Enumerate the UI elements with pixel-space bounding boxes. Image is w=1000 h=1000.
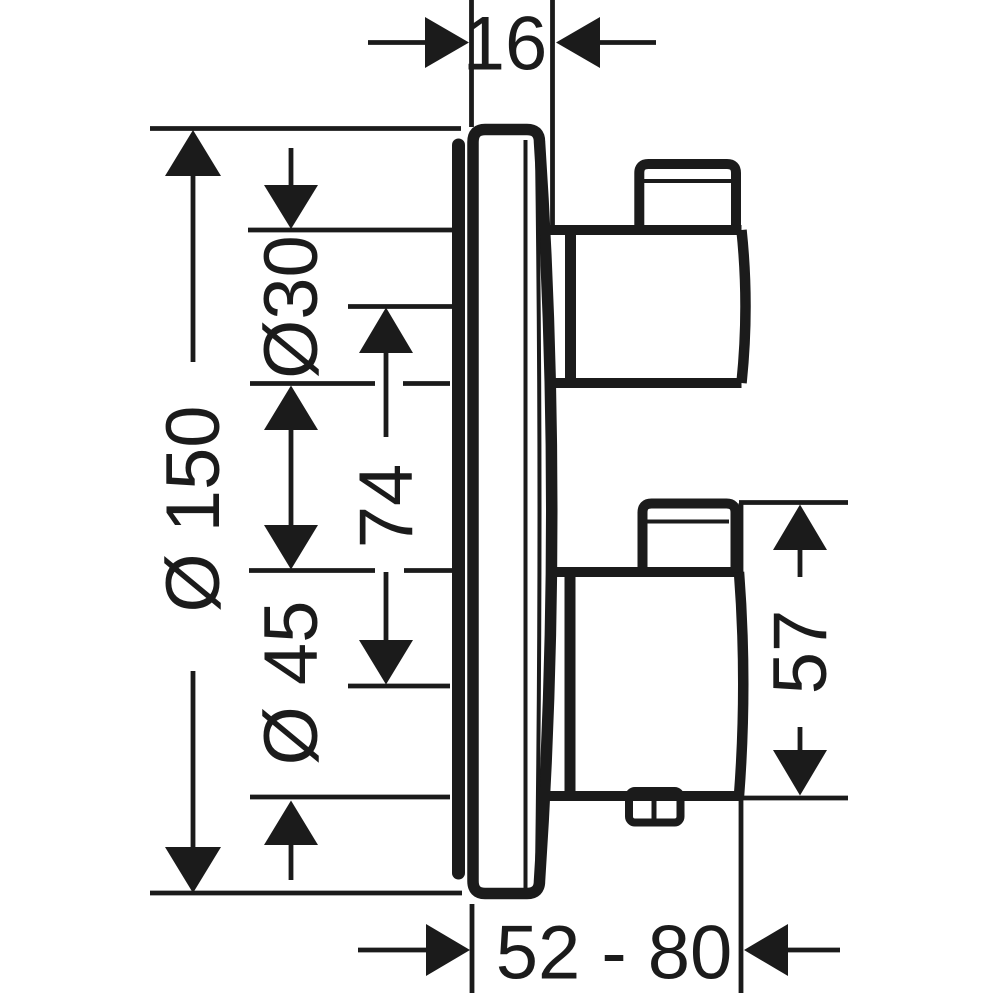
svg-text:16: 16 bbox=[463, 2, 548, 87]
upper handle body left joint line bbox=[565, 234, 576, 379]
upper knob inner line bbox=[643, 179, 731, 183]
extension line 52-80 left (below plate) bbox=[470, 904, 475, 993]
svg-text:52 - 80: 52 - 80 bbox=[496, 911, 733, 996]
arrowhead D150 down bbox=[165, 847, 221, 893]
dimension stub 57 lower bbox=[798, 727, 803, 751]
extension line top of upper handle body (D30 top) bbox=[248, 228, 452, 233]
arrowhead 57 up bbox=[773, 505, 827, 551]
dimension stub 57 upper bbox=[798, 549, 803, 577]
extension line top of lower handle body (D45 top), left part bbox=[249, 568, 375, 573]
dimension shaft D150 upper segment bbox=[191, 172, 196, 362]
arrowhead D150 up bbox=[165, 130, 221, 176]
extension line 57 top (knob top) bbox=[739, 500, 848, 505]
dimension stub 74 lower bbox=[384, 572, 389, 642]
extension line top of plate (D150 top) bbox=[150, 126, 461, 131]
arrowhead D45 top (points down) bbox=[264, 525, 318, 570]
dimension line 16 left segment bbox=[368, 40, 427, 45]
dimension stub below D45 arrow bbox=[289, 845, 294, 880]
svg-text:Ø30: Ø30 bbox=[249, 235, 334, 379]
extension line 16 left (plate rear face) bbox=[469, 0, 474, 127]
upper handle body top edge bbox=[545, 225, 742, 235]
arrowhead 74 up bbox=[359, 308, 413, 354]
arrowhead 16 left (points right) bbox=[425, 17, 469, 68]
extension line center of lower handle (74 bottom) bbox=[348, 684, 450, 689]
escutcheon plate outline bbox=[473, 130, 552, 894]
extension line bottom of upper handle body (D30 bottom), left part bbox=[250, 381, 375, 386]
svg-text:Ø 150: Ø 150 bbox=[151, 405, 236, 612]
dimension stub between D30 and D45 arrows bbox=[289, 428, 294, 528]
lower handle body right edge bbox=[739, 572, 743, 796]
dimension line 16 right segment bbox=[599, 40, 656, 45]
extension line 52-80 right (below handle) bbox=[739, 503, 744, 993]
arrowhead 52-80 left (points right) bbox=[426, 924, 470, 976]
lower handle body left joint line bbox=[565, 576, 576, 792]
extension line bottom of lower handle body (D45 bottom) bbox=[250, 795, 450, 800]
extension line bottom of upper handle body (D30 bottom), right part bbox=[403, 381, 450, 386]
extension line top of lower handle body (D45 top), right part bbox=[404, 568, 452, 573]
arrowhead 74 down bbox=[359, 640, 413, 685]
upper handle knob bbox=[639, 164, 736, 234]
arrowhead D45 bottom (points up) bbox=[264, 801, 318, 846]
lower handle body bottom edge bbox=[544, 791, 739, 801]
upper handle body bottom edge bbox=[548, 378, 742, 388]
plate rim edge line bbox=[537, 152, 540, 872]
dimension stub 74 upper bbox=[384, 351, 389, 437]
arrowhead D30 top (points down) bbox=[264, 185, 318, 229]
dimension stub above D30 arrow bbox=[289, 148, 294, 188]
svg-text:57: 57 bbox=[758, 610, 843, 695]
dimension line 52-80 left segment bbox=[358, 948, 428, 953]
dimension line 52-80 right segment bbox=[786, 948, 840, 953]
bottom tab divider bbox=[652, 798, 657, 820]
lower handle knob bbox=[643, 504, 736, 575]
svg-text:Ø 45: Ø 45 bbox=[249, 601, 334, 766]
upper handle body right edge bbox=[742, 230, 746, 383]
wall flange bar of escutcheon bbox=[452, 145, 465, 873]
extension line center of upper handle (74 top) bbox=[348, 304, 452, 309]
svg-text:74: 74 bbox=[344, 464, 429, 549]
lower handle body top edge bbox=[549, 567, 739, 577]
lower knob inner line bbox=[647, 520, 729, 524]
arrowhead D30 bottom (points up) bbox=[264, 386, 318, 431]
arrowhead 52-80 right (points left) bbox=[744, 924, 788, 976]
extension line 16 right (plate front bulge) bbox=[550, 0, 555, 232]
arrowhead 16 right (points left) bbox=[556, 17, 600, 68]
extension line 57 bottom (handle bottom) bbox=[742, 796, 848, 801]
arrowhead 57 down bbox=[773, 750, 827, 796]
bottom tab of lower handle bbox=[629, 791, 681, 823]
dimension shaft D150 lower segment bbox=[191, 671, 196, 851]
extension line bottom of plate (D150 bottom) bbox=[150, 891, 462, 896]
plate face inner edge line bbox=[524, 140, 528, 888]
